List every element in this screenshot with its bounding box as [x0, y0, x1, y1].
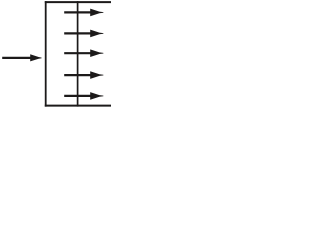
- wire box left edge: [45, 1, 47, 107]
- wire output line 5: [64, 95, 95, 97]
- wire box top edge: [45, 1, 112, 3]
- fan-out diagram: one input arrow into a box, five output arrows: [0, 0, 111, 107]
- wire input line: [2, 57, 32, 59]
- wire divider vertical line: [77, 1, 79, 107]
- wire output line 1: [64, 11, 95, 13]
- arrowhead output 2: [90, 30, 103, 38]
- arrowhead output 5: [90, 92, 103, 100]
- arrowhead input: [30, 54, 41, 61]
- arrowhead output 1: [90, 9, 103, 17]
- wire box bottom edge: [45, 105, 112, 107]
- arrowhead output 4: [90, 71, 103, 79]
- wire output line 4: [64, 74, 95, 76]
- arrowhead output 3: [90, 49, 103, 57]
- wire output line 2: [64, 32, 95, 34]
- wire output line 3: [64, 52, 95, 54]
